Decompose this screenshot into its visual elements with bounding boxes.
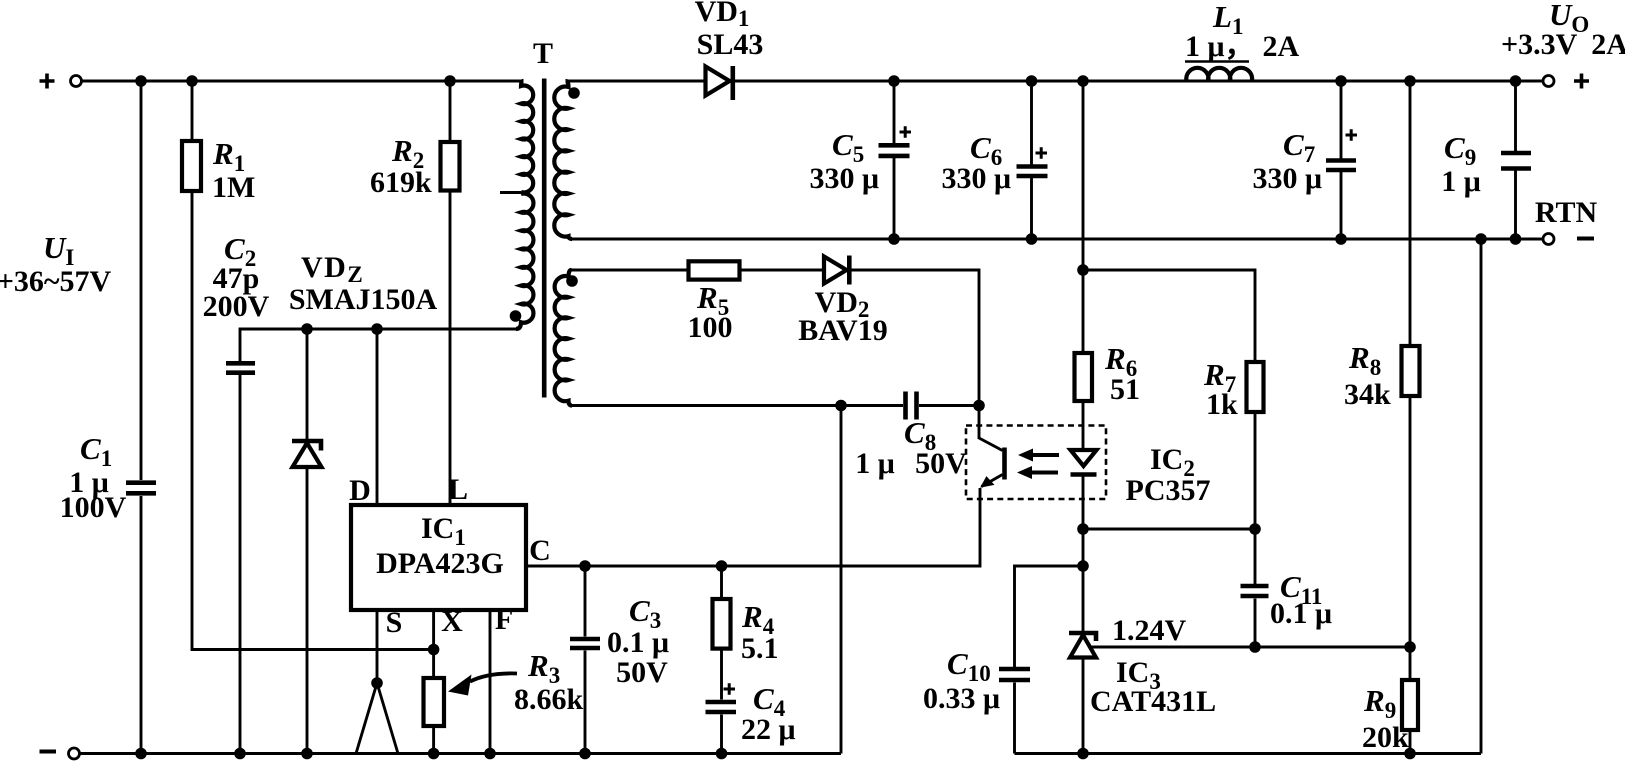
- opto light arrows: [1017, 449, 1059, 480]
- R3 pointer arrow: [448, 673, 517, 695]
- label R2: [370, 133, 432, 199]
- label C7: [1252, 127, 1322, 195]
- label C5: [809, 127, 879, 195]
- transformer primary winding lower: [516, 194, 533, 329]
- wire F pin: [489, 610, 492, 754]
- svg-text:330 μ: 330 μ: [941, 162, 1011, 195]
- capacitor C10: [999, 669, 1030, 680]
- wire RTN down: [1480, 239, 1483, 754]
- transformer secondary winding: [554, 81, 572, 239]
- junction dots ground rail: [888, 233, 1521, 245]
- wire C1 branch: [140, 81, 143, 754]
- resistor R8: [1402, 346, 1420, 396]
- diode VD2: [824, 256, 849, 285]
- resistor R2: [441, 142, 460, 191]
- label C2: [203, 231, 270, 323]
- svg-text:34k: 34k: [1344, 378, 1391, 411]
- resistor R1: [182, 141, 201, 191]
- opto transistor: [979, 406, 1005, 488]
- capacitor C8: [906, 392, 917, 420]
- wire top rail left: [82, 80, 524, 83]
- svg-text:S: S: [386, 606, 403, 639]
- svg-text:F: F: [495, 603, 513, 636]
- resistor R5: [689, 261, 740, 279]
- capacitor C3: [570, 639, 600, 648]
- svg-text:X: X: [441, 605, 463, 638]
- svg-text:1k: 1k: [1206, 388, 1238, 421]
- resistor R9: [1402, 680, 1418, 730]
- wire S pin tent: [356, 610, 398, 754]
- svg-text:BAV19: BAV19: [798, 314, 887, 347]
- wire bias top: [572, 270, 980, 406]
- svg-text:200V: 200V: [203, 290, 270, 323]
- svg-text:0.33 μ: 0.33 μ: [923, 682, 1000, 715]
- label C9: [1441, 130, 1481, 198]
- junction dots top rail: [135, 75, 1521, 87]
- output RTN terminal: [1543, 234, 1594, 245]
- shunt regulator IC3 CAT431L: [1069, 633, 1096, 658]
- wire output ground rail: [572, 238, 1543, 241]
- pin labels IC1: [349, 473, 551, 639]
- input + terminal: [40, 74, 82, 89]
- svg-text:SL43: SL43: [697, 28, 764, 61]
- svg-text:PC357: PC357: [1126, 474, 1211, 507]
- svg-text:8.66k: 8.66k: [514, 683, 584, 716]
- wire bias bottom / C8: [572, 404, 979, 407]
- label IC3: [1090, 656, 1216, 718]
- wire C5 branch: [893, 81, 896, 239]
- svg-text:0.1 μ: 0.1 μ: [607, 626, 669, 659]
- inductor L1: [1186, 68, 1252, 81]
- resistor R3: [424, 678, 445, 726]
- transformer secondary phase dot: [568, 87, 580, 99]
- junction dots feedback: [835, 264, 1416, 653]
- label R7: [1203, 357, 1238, 421]
- svg-text:51: 51: [1110, 373, 1140, 406]
- wire R7 branch: [1083, 270, 1255, 529]
- wire feedback chain x1083: [1082, 81, 1085, 754]
- input - terminal: [40, 748, 80, 759]
- opto IC2 dashed box: [966, 426, 1106, 500]
- wire X pin / R3: [432, 610, 435, 754]
- svg-text:50V: 50V: [616, 656, 668, 689]
- wire R8 R9 branch: [1409, 81, 1412, 754]
- wire top rail right: [566, 80, 1544, 83]
- svg-text:D: D: [349, 474, 371, 507]
- transformer primary winding upper: [521, 81, 533, 192]
- capacitor C1: [126, 483, 156, 494]
- svg-text:CAT431L: CAT431L: [1090, 685, 1216, 718]
- svg-text:50V: 50V: [915, 447, 967, 480]
- svg-text:0.1 μ: 0.1 μ: [1270, 597, 1332, 630]
- svg-text:C: C: [529, 534, 551, 567]
- svg-text:T: T: [533, 37, 553, 70]
- wire clamp node: [240, 329, 516, 754]
- label R1: [212, 136, 255, 204]
- label C10: [923, 646, 1000, 715]
- wire C pin to opto emitter: [526, 488, 980, 566]
- resistor R6: [1075, 353, 1093, 401]
- wire opto out to R7: [1083, 528, 1255, 531]
- wire R4 C4 branch: [720, 566, 723, 754]
- wire C9 branch: [1514, 81, 1517, 239]
- IC1 box DPA423G: [351, 505, 526, 610]
- svg-text:SMAJ150A: SMAJ150A: [289, 283, 438, 316]
- svg-text:330 μ: 330 μ: [1252, 162, 1322, 195]
- junction dots C wire: [371, 560, 727, 689]
- label L1: [1185, 0, 1300, 63]
- opto LED: [1071, 450, 1097, 475]
- label R9: [1362, 683, 1409, 754]
- label R6: [1104, 341, 1140, 406]
- wire R2 branch to L pin: [449, 81, 452, 505]
- svg-text:619k: 619k: [370, 166, 432, 199]
- wire D pin: [376, 329, 379, 505]
- svg-text:5.1: 5.1: [741, 632, 779, 665]
- capacitor C5: [879, 126, 912, 156]
- label C11: [1270, 569, 1332, 630]
- junction dots bottom rail: [135, 748, 1416, 760]
- svg-text:L: L: [448, 473, 468, 506]
- label C3: [607, 593, 669, 689]
- label R8: [1344, 340, 1391, 411]
- resistor R7: [1247, 362, 1264, 412]
- node UO label: [1501, 0, 1625, 61]
- label VDz: [289, 251, 438, 316]
- svg-text:22 μ: 22 μ: [741, 713, 796, 746]
- wire bottom rail left: [80, 752, 842, 755]
- wire bottom rail right: [1015, 752, 1482, 755]
- capacitor C9: [1501, 153, 1531, 169]
- label VD2: [798, 286, 887, 347]
- wire C7 branch: [1340, 81, 1343, 239]
- svg-text:DPA423G: DPA423G: [376, 547, 504, 580]
- capacitor C7: [1326, 129, 1357, 170]
- label IC2: [1126, 443, 1211, 507]
- svg-text:330 μ: 330 μ: [809, 162, 879, 195]
- svg-text:1 μ: 1 μ: [1441, 165, 1481, 198]
- transformer T core: [542, 79, 547, 398]
- transformer primary tap: [500, 191, 521, 194]
- wire C10 branch: [1015, 566, 1084, 754]
- capacitor C11: [1241, 586, 1269, 596]
- diode VD1: [706, 66, 733, 100]
- svg-text:1 μ: 1 μ: [855, 447, 895, 480]
- zener VDz: [292, 441, 322, 467]
- label R5: [688, 280, 733, 344]
- svg-text:1 μ，2A: 1 μ，2A: [1185, 30, 1300, 63]
- svg-text:100V: 100V: [60, 491, 127, 524]
- svg-text:+3.3V2A: +3.3V2A: [1501, 28, 1625, 61]
- output + terminal: [1543, 74, 1589, 89]
- svg-text:1.24V: 1.24V: [1112, 614, 1187, 647]
- svg-text:1M: 1M: [212, 171, 255, 204]
- wire C3 branch: [584, 566, 587, 754]
- wire IC3 ref: [1091, 646, 1411, 649]
- svg-text:100: 100: [688, 311, 733, 344]
- svg-text:RTN: RTN: [1535, 196, 1598, 229]
- wire C11 branch: [1254, 529, 1257, 647]
- label C8: [855, 415, 967, 480]
- label R4: [741, 599, 779, 665]
- svg-text:+36~57V: +36~57V: [0, 265, 112, 298]
- capacitor C6: [1017, 147, 1048, 176]
- label R3: [514, 648, 584, 716]
- wire VDz branch: [306, 329, 309, 754]
- label C4: [741, 681, 796, 746]
- wire bias return: [840, 406, 843, 754]
- junction dots clamp wire: [301, 323, 383, 335]
- wire C6 branch: [1030, 81, 1033, 239]
- capacitor C4: [706, 683, 737, 712]
- label IC1: [376, 512, 504, 580]
- resistor R4: [713, 599, 731, 649]
- transformer bias phase dot: [566, 275, 578, 287]
- wire R1 branch to X pin: [192, 81, 434, 650]
- svg-text:20k: 20k: [1362, 721, 1409, 754]
- capacitor C2: [226, 363, 255, 372]
- label VD1: [695, 0, 764, 61]
- label C1: [60, 431, 127, 524]
- transformer bias winding: [555, 270, 572, 406]
- label C6: [941, 130, 1011, 195]
- transformer primary phase dot: [510, 310, 522, 322]
